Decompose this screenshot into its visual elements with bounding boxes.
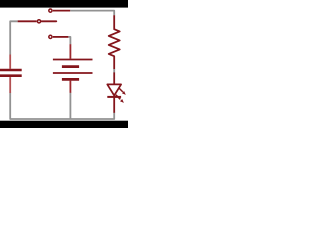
wire: red lead from throw 1 to top rail — [53, 10, 71, 12]
top letterbox band — [0, 0, 128, 8]
wire: gray bottom rail with corners, up left rail — [10, 93, 114, 119]
resistor R1 — [109, 15, 120, 69]
switch SW1 lever — [41, 20, 56, 22]
battery B1 top lead — [69, 44, 71, 59]
wire: red segment left of switch pole — [18, 20, 37, 22]
wire: gray top rail with corner down to resistor — [70, 11, 114, 16]
LED D1 emission arrow 2 — [116, 95, 124, 103]
switch SW1 pole terminal — [37, 20, 40, 23]
battery B1 plate 2 (short) — [62, 65, 79, 68]
switch SW1 throw terminal 2 — [49, 35, 52, 38]
battery B1 plate 4 (short) — [62, 78, 79, 81]
LED D1 cathode bar — [107, 96, 121, 98]
wire: gray segment between resistor and LED — [113, 69, 115, 73]
battery B1 bottom lead (red) — [69, 81, 71, 93]
battery B1 plate 1 (long) — [53, 59, 93, 61]
wire: gray battery branch down to bottom rail — [69, 93, 71, 120]
battery B1 plate 3 (long) — [53, 72, 93, 74]
LED D1 cathode lead — [113, 97, 115, 113]
LED D1 anode lead — [113, 72, 115, 84]
LED D1 emission arrow 1 — [118, 88, 125, 95]
capacitor C1 bottom plate — [0, 74, 22, 77]
wire: left rail light red down to capacitor — [9, 55, 11, 69]
wire: gray corner down to battery top lead — [68, 37, 70, 45]
capacitor C1 top plate — [0, 69, 22, 72]
wire: red lead from throw 2 toward battery — [53, 36, 69, 38]
capacitor C1 bottom lead (light red) — [9, 77, 11, 93]
LED D1 triangle — [107, 84, 121, 95]
wire: gray top-left corner into left rail — [10, 21, 17, 54]
bottom letterbox band — [0, 121, 128, 128]
switch SW1 throw terminal 1 — [49, 9, 52, 12]
